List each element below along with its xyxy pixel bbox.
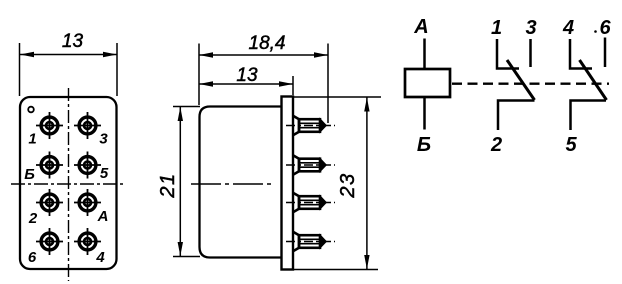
- svg-text:Б: Б: [417, 134, 431, 156]
- svg-text:2: 2: [490, 134, 502, 156]
- vertical centerline (front view): [68, 88, 70, 281]
- contact K1.1 movable arm: [507, 60, 535, 100]
- pin terminal row 1 (side view): [286, 116, 335, 135]
- relay body outline (front view): [20, 97, 117, 269]
- mounting flange (side view): [282, 97, 294, 270]
- svg-text:21: 21: [157, 172, 179, 198]
- pin 2 (front view): [36, 189, 63, 216]
- label A (coil terminal): [413, 16, 428, 38]
- svg-text:A: A: [97, 208, 109, 225]
- coil lead wire B: [423, 97, 426, 130]
- contact group K1.1 : label 3: [525, 17, 536, 39]
- stray dot mark: [594, 30, 597, 33]
- svg-text:6: 6: [28, 249, 37, 266]
- contact K1.1 terminal 3 wire: [529, 39, 532, 67]
- contact group K1.1 : label 2: [490, 134, 502, 156]
- label 5 (front view): [100, 165, 109, 182]
- label 6 (front view): [28, 249, 37, 266]
- svg-text:13: 13: [62, 31, 84, 52]
- svg-text:Б: Б: [24, 166, 35, 183]
- svg-text:4: 4: [562, 17, 574, 39]
- svg-text:1: 1: [491, 17, 502, 39]
- svg-text:1: 1: [28, 131, 36, 148]
- pin 4 (front view): [74, 228, 101, 255]
- dimension 18,4 (side view overall depth): [199, 33, 328, 123]
- label 3 (front view): [99, 131, 108, 148]
- pin 3 (front view): [74, 112, 101, 139]
- dimension 13 (side view body depth): [199, 65, 293, 95]
- horizontal centerline (front view): [11, 183, 124, 185]
- svg-text:3: 3: [99, 131, 108, 148]
- pin 6 (front view): [36, 228, 63, 255]
- contact K1.2 movable arm: [580, 60, 607, 100]
- pin terminal row 2 (side view): [286, 155, 335, 174]
- svg-text:18,4: 18,4: [249, 33, 286, 54]
- pin A coil terminal (front view): [74, 189, 101, 216]
- mechanical link dashed line: [452, 83, 609, 85]
- contact K1.1 terminal 2 wire: [498, 101, 535, 131]
- contact K1.2 terminal 6 wire: [604, 38, 607, 68]
- svg-text:13: 13: [236, 65, 258, 86]
- label A (front view): [97, 208, 109, 225]
- dimension 13 (front view width): [20, 31, 118, 96]
- orientation mark circle: [28, 107, 34, 113]
- relay body outline (side view): [200, 107, 283, 258]
- svg-text:A: A: [413, 16, 428, 38]
- dimension 21 (body height): [157, 107, 200, 257]
- contact group K1.1 : label 1: [491, 17, 502, 39]
- label B (coil terminal): [417, 134, 431, 156]
- pin 5 (front view): [74, 152, 101, 179]
- label 4 (front view): [95, 249, 105, 266]
- pin 1 (front view): [36, 112, 63, 139]
- horizontal centerline (side view body): [191, 183, 272, 185]
- pin B coil terminal (front view): [36, 152, 63, 179]
- svg-text:23: 23: [337, 172, 359, 198]
- svg-text:5: 5: [100, 165, 109, 182]
- relay coil K1: [405, 69, 450, 97]
- dimension 23 (flange height): [282, 97, 381, 270]
- coil lead wire A: [423, 39, 426, 70]
- svg-text:5: 5: [565, 134, 577, 156]
- contact K1.2 terminal 5 wire: [571, 101, 607, 131]
- label 2 (front view): [28, 210, 38, 227]
- contact group K1.2 : label 6: [599, 17, 611, 39]
- svg-text:3: 3: [525, 17, 536, 39]
- label B (front view): [24, 166, 35, 183]
- pin terminal row 3 (side view): [286, 193, 335, 212]
- label 1 (front view): [28, 131, 36, 148]
- svg-text:4: 4: [95, 249, 105, 266]
- svg-text:6: 6: [599, 17, 611, 39]
- svg-text:2: 2: [28, 210, 38, 227]
- contact group K1.2 : label 5: [565, 134, 577, 156]
- contact K1.1 terminal 1 wire: [497, 39, 519, 69]
- contact K1.2 terminal 4 wire: [570, 39, 592, 69]
- contact group K1.2 : label 4: [562, 17, 574, 39]
- pin terminal row 4 (side view): [286, 232, 335, 251]
